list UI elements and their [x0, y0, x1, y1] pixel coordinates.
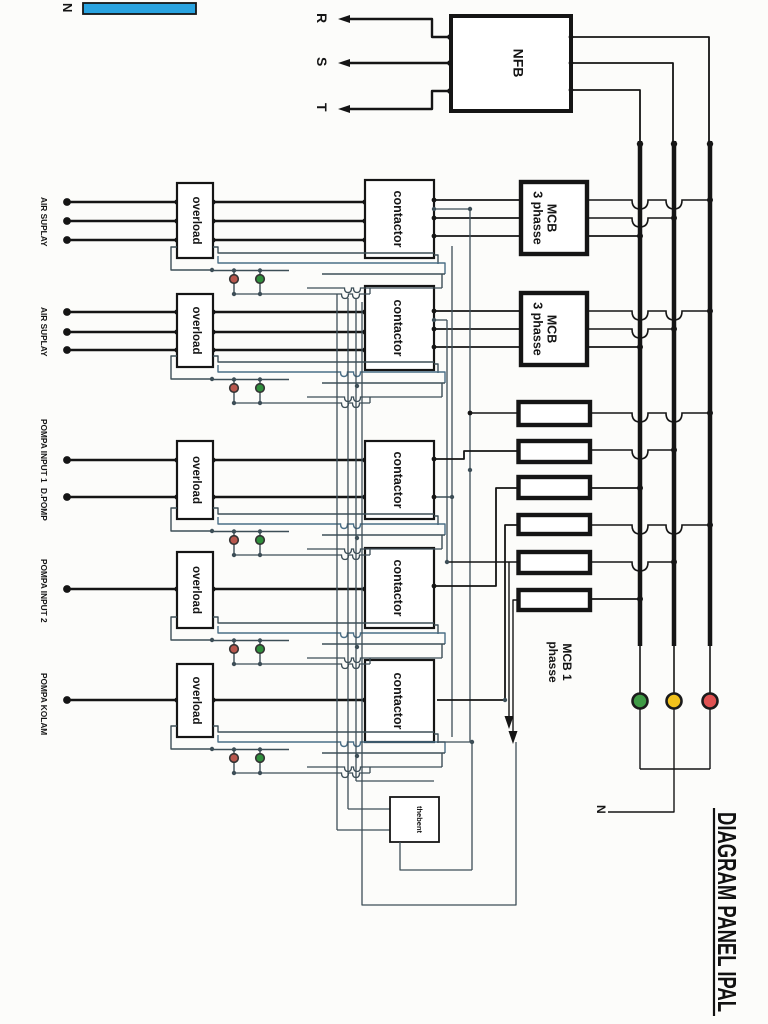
label MCB 1 phasse	[546, 641, 574, 683]
lamp green pilot row 4	[256, 638, 265, 666]
wire S to NFB	[348, 60, 453, 66]
bus phase 1 (thick vertical)	[637, 141, 643, 694]
svg-text:POMPA INPUT 2: POMPA INPUT 2	[39, 559, 49, 623]
wire aux K1 riser to MCB unit1	[432, 207, 518, 742]
svg-text:NFB: NFB	[510, 49, 526, 78]
svg-text:T: T	[314, 103, 330, 112]
contactor K4	[365, 548, 434, 628]
lamp green pilot row 1	[256, 268, 265, 296]
node label D.POMP	[39, 488, 49, 521]
node K3 out2 stub	[432, 495, 455, 500]
relay thebent	[390, 797, 439, 842]
svg-text:thebent: thebent	[415, 806, 424, 834]
node label POMPA INPUT 2	[39, 559, 49, 623]
svg-text:overload: overload	[190, 456, 202, 504]
svg-text:3 phasse: 3 phasse	[531, 191, 545, 245]
contactor K3	[365, 441, 434, 519]
overload OL3	[177, 441, 213, 519]
contactor K1	[365, 180, 434, 258]
wire MCB unit5 feed riser with arrow	[505, 562, 514, 729]
wire NFB to bus S	[569, 61, 673, 141]
node R supply terminal	[314, 13, 350, 23]
wire contactor K2 to MCB2	[432, 309, 521, 314]
bus phase 3 (thick vertical)	[707, 141, 713, 694]
svg-text:N: N	[60, 3, 75, 12]
svg-text:MCB 1: MCB 1	[560, 643, 574, 681]
lamp red pilot row 1	[230, 268, 239, 296]
wire input L3 row 2	[63, 346, 368, 354]
breaker MCB2 3 phasse	[521, 293, 587, 365]
wire input L1 row 2	[63, 308, 368, 316]
lamp red pilot row 2	[230, 377, 239, 405]
label N for neutral busbar	[60, 3, 75, 12]
contactor K5	[365, 660, 434, 742]
node label POMPA KOLAM	[39, 673, 49, 735]
svg-text:overload: overload	[190, 307, 202, 355]
svg-text:contactor: contactor	[391, 191, 405, 248]
lamp red indicator	[703, 694, 718, 770]
wire contactor K2 to MCB2	[432, 327, 521, 332]
svg-text:contactor: contactor	[391, 300, 405, 357]
svg-text:POMPA KOLAM: POMPA KOLAM	[39, 673, 49, 735]
breaker MCB 1 phasse unit 6	[519, 590, 591, 610]
contactor K2	[365, 286, 434, 370]
svg-text:AIR SUPLAY: AIR SUPLAY	[39, 307, 49, 357]
wire K5 bottom extension to inner loop	[437, 740, 474, 870]
wire K3 out1 to MCB unit2	[432, 451, 518, 461]
wire T to NFB	[348, 88, 453, 109]
svg-text:contactor: contactor	[391, 673, 405, 730]
overload OL4	[177, 552, 213, 628]
wire MCB1 out2 to bus2	[587, 215, 677, 227]
node label AIR SUPLAY	[39, 307, 49, 357]
wire aux riser x452	[451, 246, 453, 737]
lamp red pilot row 5	[230, 747, 239, 775]
svg-text:POMPA INPUT 1: POMPA INPUT 1	[39, 419, 49, 483]
node S supply terminal	[314, 57, 350, 67]
wire MCB unit6 to bus1	[591, 596, 643, 602]
lamp green indicator	[633, 694, 648, 770]
svg-text:MCB: MCB	[545, 204, 559, 232]
wire to N terminal	[608, 769, 674, 812]
svg-text:contactor: contactor	[391, 452, 405, 509]
overload OL2	[177, 294, 213, 367]
breaker MCB 1 phasse unit 4	[519, 515, 591, 534]
title DIAGRAM PANEL IPAL	[712, 808, 742, 1016]
svg-text:phasse: phasse	[546, 641, 560, 683]
wire R to NFB	[348, 19, 453, 40]
breaker MCB 1 phasse unit 2	[519, 441, 591, 462]
breaker MCB 1 phasse unit 5	[519, 552, 591, 573]
lamp green pilot row 5	[256, 747, 265, 775]
wire input L2 row 1	[63, 217, 368, 225]
svg-text:MCB: MCB	[545, 315, 559, 343]
wire MCB1 out1 to bus3	[587, 197, 713, 209]
svg-text:AIR SUPLAY: AIR SUPLAY	[39, 197, 49, 247]
wire MCB2 out2 to bus2	[587, 326, 677, 338]
overload OL1	[177, 183, 213, 258]
wire input L2 row 2	[63, 328, 368, 336]
wire contactor K1 to MCB1	[432, 234, 521, 239]
wire control channel row 2	[171, 356, 445, 408]
busbar N (blue neutral bar)	[83, 3, 196, 14]
wire control channel row 3	[171, 508, 445, 560]
wire MCB unit1 to bus3	[591, 410, 713, 422]
wire input L2 row 3	[63, 493, 368, 501]
svg-text:D.POMP: D.POMP	[39, 488, 49, 521]
lamp red pilot row 4	[230, 638, 239, 666]
wire MCB unit5 to bus2	[591, 559, 677, 571]
breaker MCB 1 phasse unit 1	[519, 402, 591, 425]
node T supply terminal	[314, 103, 350, 113]
lamp green pilot row 2	[256, 377, 265, 405]
wire control riser B	[348, 298, 390, 809]
wire lamp common	[640, 768, 710, 770]
svg-text:3 phasse: 3 phasse	[531, 302, 545, 356]
node label POMPA INPUT 1	[39, 419, 49, 483]
svg-text:overload: overload	[190, 677, 202, 725]
wire input L1 row 5	[63, 696, 368, 704]
svg-text:contactor: contactor	[391, 560, 405, 617]
wire K5 out riser to MCB unit4	[437, 525, 518, 702]
svg-text:overload: overload	[190, 566, 202, 614]
breaker NFB	[451, 16, 571, 111]
wire control riser D outer loop	[362, 302, 516, 905]
wire MCB2 out3 to bus1	[587, 344, 643, 350]
wire MCB unit2 to bus2	[591, 447, 677, 459]
wire thebent bottom loop	[400, 842, 472, 870]
wire contactor K1 to MCB1	[432, 198, 521, 203]
wire aux K2 riser to MCB unit5	[432, 318, 518, 564]
bus phase 2 (thick vertical)	[671, 141, 677, 694]
wire K4 out riser to MCB unit3	[432, 488, 518, 588]
wire input L1 row 1	[63, 198, 368, 206]
node N terminal	[594, 805, 608, 814]
wire NFB to bus R	[569, 35, 709, 141]
svg-text:overload: overload	[190, 197, 202, 245]
node label AIR SUPLAY	[39, 197, 49, 247]
wire MCB1 out3 to bus1	[587, 233, 643, 239]
wire control riser A	[337, 294, 390, 830]
svg-text:R: R	[314, 13, 330, 23]
lamp red pilot row 3	[230, 529, 239, 557]
breaker MCB 1 phasse unit 3	[519, 477, 591, 498]
overload OL5	[177, 664, 213, 737]
breaker MCB1 3 phasse	[521, 182, 587, 254]
wire MCB2 out1 to bus3	[587, 308, 713, 320]
wire input L1 row 3	[63, 456, 368, 464]
lamp green pilot row 3	[256, 529, 265, 557]
wire contactor K2 to MCB2	[432, 345, 521, 350]
wire NFB to bus T	[569, 88, 640, 141]
svg-text:N: N	[594, 805, 608, 814]
wire MCB unit6 feed riser with arrow	[509, 600, 519, 744]
wire contactor K1 to MCB1	[432, 216, 521, 221]
wire MCB unit4 to bus3	[591, 522, 713, 534]
wire input L3 row 1	[63, 236, 368, 244]
wire MCB unit3 to bus1	[591, 485, 643, 491]
wire control channel row 4	[171, 617, 445, 669]
wire control channel row 5	[171, 726, 445, 778]
wire input L1 row 4	[63, 585, 368, 593]
wire control riser C	[356, 298, 434, 781]
lamp yellow indicator	[667, 694, 682, 770]
svg-text:S: S	[314, 57, 330, 66]
wire control channel row 1	[171, 247, 445, 299]
svg-text:DIAGRAM PANEL IPAL: DIAGRAM PANEL IPAL	[712, 812, 742, 1012]
